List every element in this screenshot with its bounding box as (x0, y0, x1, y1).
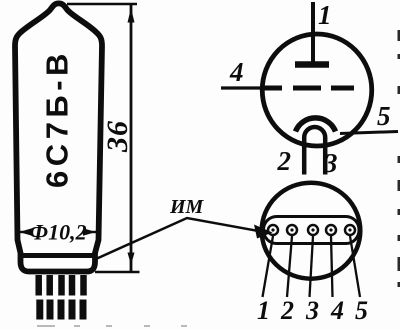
tube label 6С7Б-В (40, 49, 75, 188)
svg-text:1: 1 (257, 296, 270, 325)
svg-text:5: 5 (355, 296, 368, 325)
base view circle (262, 183, 361, 279)
grid lead pin 4 (221, 86, 262, 89)
tube body outline (15, 3, 102, 271)
svg-text:Ф10,2: Ф10,2 (29, 220, 86, 245)
pin hole 3 (308, 225, 318, 235)
diameter dimension line Ф10,2 (19, 231, 96, 233)
svg-text:36: 36 (101, 120, 134, 153)
base separation line (21, 253, 95, 258)
pin hole 5 (345, 225, 355, 235)
lead wires upper segments (39, 275, 84, 296)
height dimension 36: vertical line (130, 4, 133, 272)
page edge text fragments right (398, 30, 400, 287)
triode envelope circle (262, 34, 372, 146)
bottom axis chain line remnant (37, 325, 187, 327)
svg-text:4: 4 (330, 296, 344, 325)
svg-text:3: 3 (305, 296, 319, 325)
pin hole 4 (326, 225, 336, 235)
dimension value 36 (101, 120, 134, 153)
pin hole 1 (268, 225, 278, 235)
svg-text:ИМ: ИМ (169, 196, 205, 218)
svg-text:1: 1 (318, 0, 332, 30)
svg-text:3: 3 (323, 148, 338, 178)
svg-text:5: 5 (377, 101, 391, 131)
height dimension 36: top extension line (67, 3, 137, 6)
pin fan lines (263, 236, 361, 297)
grid dashed electrode (263, 86, 354, 91)
dimension arrow down (128, 253, 135, 266)
base key band (264, 217, 360, 244)
pin hole 2 (287, 225, 297, 235)
anode lead pin 1 (311, 2, 315, 62)
left arrowhead of Ф10,2 (19, 228, 32, 235)
leader line ИМ (97, 218, 261, 259)
filament heater (304, 127, 325, 174)
svg-text:4: 4 (229, 57, 244, 87)
height dimension 36: bottom extension line (95, 271, 140, 274)
right arrowhead of Ф10,2 (83, 228, 96, 235)
svg-text:2: 2 (277, 146, 292, 176)
dimension arrow up (128, 8, 135, 23)
cathode lead pin 5 (340, 132, 398, 134)
lead wires lower segments (40, 300, 83, 320)
svg-text:2: 2 (280, 296, 294, 325)
cathode dome arc (296, 118, 336, 132)
leader arrowhead (254, 225, 273, 239)
svg-text:6С7Б-В: 6С7Б-В (40, 49, 75, 188)
anode bar (295, 61, 329, 68)
